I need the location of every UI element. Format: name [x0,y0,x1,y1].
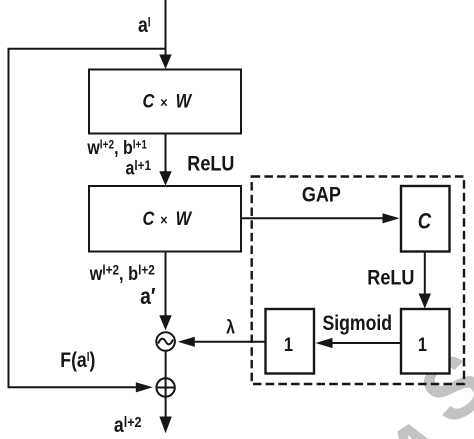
wire: conv1 to conv2 [165,134,167,174]
svg-text:GAP: GAP [302,183,341,207]
dashed SE box [252,177,464,385]
wire: multiplier to adder [165,351,167,378]
svg-text:ReLU: ReLU [187,152,234,176]
block: conv1 C x W [89,70,241,134]
block: 1 (left) [266,309,315,374]
wire: input a^l vertical [165,0,167,58]
svg-text:C: C [418,210,432,234]
svg-text:F(al): F(al) [60,349,95,373]
wire: lambda arrow to multiplier [193,341,266,343]
block: 1 (right) [401,309,450,374]
svg-text:a′: a′ [140,285,155,310]
wire: GAP arrow conv2 to block C [241,217,384,219]
multiplier node [156,332,175,351]
wire: skip connection [9,49,166,388]
wire: block C down to block 1 right [424,252,426,296]
block: conv2 C x W [89,186,241,252]
svg-text:Sigmoid: Sigmoid [323,312,393,336]
wire: sigmoid arrow right block to left block [330,342,401,344]
svg-text:λ: λ [226,316,235,338]
adder node [156,378,174,396]
wire: output arrow [165,397,167,418]
svg-text:ReLU: ReLU [367,266,414,290]
svg-text:1: 1 [284,334,293,356]
svg-text:1: 1 [418,334,427,356]
wire: conv2 to multiplier [165,252,167,318]
block: C [401,186,450,252]
